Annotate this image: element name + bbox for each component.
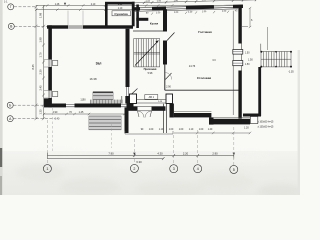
- top row3 labels: [118, 8, 144, 10]
- wall tambour top: [105, 2, 135, 5]
- svg-text:3: 3: [173, 167, 175, 171]
- dimension line under left south wall: [43, 113, 126, 115]
- svg-text:1.50: 1.50: [245, 53, 250, 55]
- svg-text:1.20: 1.20: [188, 11, 193, 13]
- window gap 3 in north wall: [214, 5, 233, 9]
- svg-text:16.38: 16.38: [90, 77, 97, 81]
- grid circle Г: [8, 4, 14, 10]
- external stair: [261, 52, 291, 67]
- window sill box 2 east wall: [233, 61, 243, 66]
- window gap west part of north wall: [68, 25, 83, 28]
- terrace door jambs above: [121, 96, 123, 104]
- wall tambour right inner: [136, 5, 139, 29]
- small dim tick east outside: [242, 7, 251, 28]
- grid line Г dash: [14, 6, 36, 8]
- dimension line left outer: [35, 5, 38, 120]
- door leaf: [167, 33, 175, 41]
- svg-text:1.45: 1.45: [79, 111, 84, 114]
- grid circle 3: [170, 165, 178, 173]
- svg-text:14.76: 14.76: [189, 64, 196, 68]
- svg-text:Кухня: Кухня: [150, 22, 159, 26]
- wall step B vertical: [170, 104, 174, 118]
- grid circle 4: [194, 165, 202, 173]
- wall north (right section): [133, 5, 243, 11]
- axis dash 4: [197, 130, 199, 164]
- svg-text:2.90: 2.90: [53, 111, 58, 114]
- wall north (left section): [47, 25, 133, 28]
- svg-text:1.50: 1.50: [156, 12, 161, 14]
- window gap 1 west wall: [48, 60, 52, 68]
- svg-text:1.40: 1.40: [208, 129, 213, 131]
- grid circle А: [7, 116, 13, 122]
- paper background: [0, 0, 300, 195]
- external stair post dots: [260, 51, 292, 68]
- partition under top-center room: [133, 30, 163, 32]
- partition below stairhall east wall: [164, 65, 166, 91]
- svg-text:2.10: 2.10: [91, 4, 96, 6]
- grid circle В: [8, 23, 14, 29]
- partition between rooms (horizontal): [165, 89, 239, 91]
- wall tambour left: [105, 2, 108, 26]
- grid line А dash: [13, 118, 55, 120]
- wall stairhall east: [163, 10, 167, 65]
- svg-text:1.00: 1.00: [146, 1, 151, 3]
- grid circle 5: [230, 165, 238, 173]
- dimension line left inner: [42, 5, 45, 120]
- dimension line top row3 (left part): [35, 9, 134, 12]
- inner face above step C: [174, 111, 212, 113]
- window extension ticks to dim row: [67, 11, 69, 26]
- svg-text:4.30: 4.30: [157, 152, 163, 156]
- external stair edge connector: [260, 44, 262, 52]
- wall step D vertical: [209, 117, 214, 124]
- door gap stairhall west wall: [126, 87, 130, 96]
- entry threshold wall left: [127, 106, 138, 111]
- axis dash terrace: [111, 124, 113, 148]
- svg-text:Прихожая: Прихожая: [144, 67, 157, 71]
- svg-text:1.48: 1.48: [55, 4, 60, 6]
- top row2 labels: [55, 4, 123, 6]
- scan right edge band: [298, 50, 300, 195]
- labels under left south wall: [53, 111, 84, 120]
- SE porch east wall: [258, 67, 261, 116]
- axis dash left: [52, 108, 54, 152]
- wall west: [48, 25, 52, 107]
- grid circle Б: [7, 102, 13, 108]
- window gap 1 in north wall: [140, 7, 152, 11]
- grid circle 1: [43, 165, 51, 173]
- svg-text:1.10: 1.10: [189, 129, 194, 131]
- svg-text:1.90: 1.90: [174, 0, 179, 2]
- svg-text:4: 4: [197, 167, 199, 171]
- svg-text:1.98: 1.98: [39, 37, 43, 43]
- svg-text:Сушилка: Сушилка: [114, 12, 128, 16]
- wall south (left section): [44, 104, 134, 108]
- SE porch south wall: [243, 114, 261, 117]
- porch partition double line: [163, 104, 165, 133]
- dimension line bottom 1: [47, 153, 234, 159]
- door gap stairhall east wall: [163, 32, 167, 41]
- door leaf stairhall: [130, 89, 138, 97]
- svg-text:1.10: 1.10: [159, 129, 164, 131]
- svg-text:1.00: 1.00: [169, 129, 174, 131]
- label Сушилка: [112, 11, 131, 16]
- axis dash 1: [46, 120, 48, 164]
- door swing arcs (double door): [138, 111, 145, 118]
- svg-text:1.50: 1.50: [245, 64, 250, 66]
- svg-text:3.40: 3.40: [55, 118, 60, 121]
- svg-text:1190: 1190: [80, 99, 86, 102]
- svg-text:2.20: 2.20: [183, 152, 189, 156]
- svg-text:1.00: 1.00: [222, 11, 227, 13]
- svg-text:7.90: 7.90: [108, 152, 114, 156]
- grid line В dash: [14, 25, 47, 27]
- entry opening thin lines: [138, 105, 152, 107]
- small interior wall top-center: [136, 18, 148, 21]
- east wall outer thin line (window zone): [241, 44, 243, 71]
- svg-text:1.50: 1.50: [157, 0, 162, 2]
- grid line Б dash: [13, 104, 44, 106]
- svg-text:1.98: 1.98: [39, 12, 43, 18]
- svg-text:2.45: 2.45: [39, 85, 43, 91]
- bottom dim labels: [108, 152, 218, 156]
- svg-text:Столовая: Столовая: [197, 76, 212, 80]
- left dimension labels (rotated): [31, 12, 43, 114]
- window sill box 1 east wall: [233, 50, 243, 55]
- svg-text:1.00: 1.00: [149, 129, 154, 131]
- dimension line bottom 2: [47, 157, 164, 160]
- wall step C: [174, 113, 212, 117]
- fine hatch strip on south wall: [91, 100, 123, 104]
- terrace bottom bracket dimension: [125, 131, 173, 134]
- svg-text:8.45: 8.45: [31, 64, 35, 70]
- svg-text:Гостиная: Гостиная: [198, 30, 212, 34]
- svg-text:1.70: 1.70: [39, 52, 43, 58]
- pier 2 (entry): [166, 94, 173, 104]
- dim line to external stair: [267, 27, 269, 50]
- svg-text:1.00: 1.00: [199, 129, 204, 131]
- svg-text:1.50: 1.50: [248, 59, 253, 62]
- svg-text:1.50: 1.50: [202, 11, 207, 13]
- north wall inner face line: [133, 9, 238, 12]
- scan dark streak left edge: [0, 148, 2, 167]
- svg-text:2: 2: [133, 167, 135, 171]
- svg-text:1.20: 1.20: [244, 126, 249, 129]
- svg-text:2.90: 2.90: [166, 86, 171, 89]
- svg-text:1.50: 1.50: [202, 0, 207, 2]
- dim row inside terrace/porch: [141, 129, 213, 131]
- label box above entry: [145, 95, 158, 100]
- top row1 labels: [146, 0, 252, 3]
- svg-text:1.00: 1.00: [222, 0, 227, 1]
- svg-text:5: 5: [233, 168, 235, 172]
- door gap in south wall: [66, 104, 75, 108]
- terrace hatch (big): [89, 116, 121, 130]
- inner dimension row right section: [146, 10, 238, 14]
- dimension line top row2: [36, 4, 243, 7]
- svg-text:2.30: 2.30: [39, 69, 43, 75]
- entry threshold wall right: [152, 106, 166, 111]
- window lines between piers: [137, 99, 167, 101]
- svg-text:1.00: 1.00: [174, 12, 179, 14]
- down arrow on row2: [64, 3, 66, 6]
- svg-text:± 135х50 h=15: ± 135х50 h=15: [258, 125, 275, 128]
- pier 1 (entry): [130, 94, 137, 104]
- svg-text:АВ 1: АВ 1: [149, 96, 155, 99]
- svg-text:Г: Г: [10, 5, 12, 9]
- svg-text:5.98: 5.98: [148, 72, 153, 75]
- staircase: [134, 39, 160, 67]
- terrace door gap in south wall: [121, 104, 127, 108]
- SE porch step box: [250, 117, 257, 124]
- staircase arrow head: [156, 41, 159, 44]
- svg-text:6.30: 6.30: [136, 160, 142, 164]
- svg-text:-1.35: -1.35: [288, 71, 294, 74]
- wall east lower: [238, 71, 241, 119]
- east wall inner face line: [232, 11, 234, 115]
- wall east upper: [238, 5, 241, 44]
- svg-text:1: 1: [46, 167, 48, 171]
- svg-text:2.90: 2.90: [212, 152, 218, 156]
- corner block SW: [44, 99, 49, 105]
- door swing in partition: [165, 73, 171, 80]
- dimension line top row1 (right section): [132, 0, 258, 4]
- scan left edge band: [0, 0, 3, 195]
- axis dash 5: [233, 127, 235, 165]
- svg-text:1.10: 1.10: [118, 8, 123, 10]
- inner face above south wall: [214, 117, 251, 119]
- axis dash 2: [133, 139, 135, 164]
- grid circle 2: [130, 164, 138, 172]
- dim ticks under south wall: [174, 132, 251, 135]
- wall stairhall west: [126, 29, 130, 104]
- svg-text:± 100х50 h=15: ± 100х50 h=15: [258, 121, 275, 124]
- bottom arrows: [133, 153, 135, 156]
- svg-text:Зал: Зал: [96, 62, 102, 66]
- staircase walk line diagonal: [135, 41, 159, 66]
- terrace east wall: [125, 107, 129, 133]
- porch hatch top (entrance steps): [93, 92, 113, 100]
- axis dash 3: [173, 135, 175, 164]
- svg-text:1.00: 1.00: [179, 129, 184, 131]
- wall tambour right: [132, 2, 135, 27]
- window gap 2 west wall: [48, 91, 52, 99]
- inner dim ticks right section: [151, 11, 229, 15]
- svg-text:1.35: 1.35: [39, 109, 43, 115]
- window gap 2 in north wall: [166, 6, 186, 10]
- wall south (right section): [214, 119, 251, 125]
